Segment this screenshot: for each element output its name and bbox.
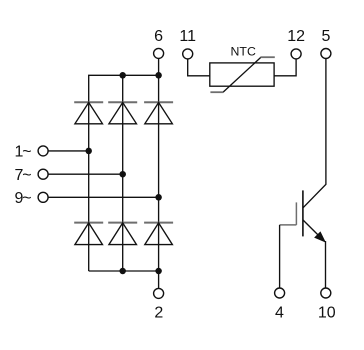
terminal 5 <box>321 49 331 59</box>
wire 1~ to column 1 <box>48 150 89 152</box>
svg-text:5: 5 <box>321 28 330 45</box>
diode D1 top col1 <box>74 102 103 124</box>
wire column 3 <box>158 75 160 271</box>
terminal 11 <box>183 49 193 59</box>
NTC thermistor RT1 <box>210 57 275 92</box>
junction node 9~ col3 <box>155 194 162 201</box>
diode D6 bottom col2 <box>108 223 137 245</box>
wire terminal 11 to NTC <box>188 59 210 76</box>
wire column 2 <box>122 75 124 271</box>
svg-text:6: 6 <box>154 28 163 45</box>
wire collector terminal 5 to IGBT <box>303 58 326 208</box>
wire terminal 6 to top rail <box>158 58 160 75</box>
svg-text:7~: 7~ <box>15 167 32 184</box>
svg-text:10: 10 <box>318 305 336 322</box>
wire top rail (+) <box>89 75 159 151</box>
terminal 10 <box>321 288 331 298</box>
svg-text:NTC: NTC <box>231 45 256 59</box>
diode D4 bottom col1 <box>74 223 103 245</box>
wire NTC to terminal 12 <box>274 59 296 76</box>
svg-text:11: 11 <box>179 28 196 45</box>
terminal 9~ <box>38 192 48 202</box>
junction node 1~ col1 <box>85 148 92 155</box>
svg-text:2: 2 <box>154 305 163 322</box>
wire bottom rail (-) <box>89 270 159 272</box>
wire 7~ to column 2 <box>48 173 123 175</box>
terminal 1~ <box>38 146 48 156</box>
terminal 12 <box>291 49 301 59</box>
terminal 2 <box>154 288 164 298</box>
diode D5 top col3 <box>144 102 173 124</box>
junction bottom rail col2 <box>119 268 126 275</box>
terminal 4 <box>275 288 285 298</box>
diode D3 top col2 <box>108 102 137 124</box>
wire 9~ to column 3 <box>48 196 159 198</box>
diode D2 bottom col3 <box>144 223 173 245</box>
junction top rail col3 <box>155 72 162 79</box>
wire column 1 <box>88 151 90 271</box>
svg-text:12: 12 <box>287 28 305 45</box>
svg-text:9~: 9~ <box>15 190 32 207</box>
wire emitter to terminal 10 <box>325 241 327 288</box>
IGBT T1 <box>296 190 325 241</box>
svg-text:4: 4 <box>275 305 284 322</box>
terminal 6 <box>154 48 164 58</box>
wire bottom rail to terminal 2 <box>158 271 160 289</box>
wire gate to terminal 4 <box>280 225 297 288</box>
junction top rail col2 <box>119 72 126 79</box>
junction bottom rail col3 <box>155 268 162 275</box>
terminal 7~ <box>38 169 48 179</box>
junction node 7~ col2 <box>119 171 126 178</box>
svg-text:1~: 1~ <box>15 144 32 161</box>
